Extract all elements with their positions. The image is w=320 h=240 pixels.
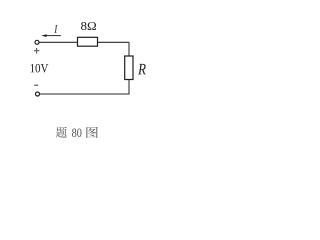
resistor 8ohm body [78, 37, 98, 46]
terminal top-left [35, 40, 39, 44]
wire top (terminal to resistor 8ohm to right corner) [39, 41, 129, 43]
current arrow I [41, 34, 61, 37]
label R [138, 64, 146, 75]
minus sign [34, 84, 38, 86]
caption 80 [72, 129, 81, 137]
label 8ohm [81, 22, 96, 30]
wire right vertical [128, 42, 130, 94]
plus sign [34, 48, 40, 54]
label I [54, 25, 57, 33]
resistor R body [125, 56, 133, 80]
terminal bottom-left [36, 92, 40, 96]
caption char tu [86, 127, 97, 138]
wire bottom [40, 93, 130, 95]
label 10V [31, 64, 49, 73]
caption char ti [56, 127, 67, 138]
